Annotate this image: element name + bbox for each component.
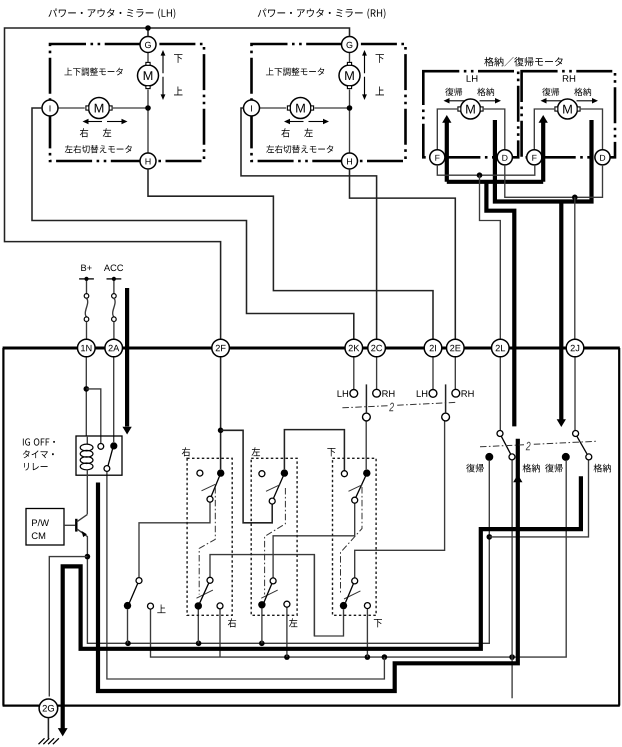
thick retract drive net — [98, 439, 522, 691]
wire 2J to retract switch common — [574, 357, 576, 430]
node L2 2L-retract — [509, 654, 515, 660]
thick return-feed arrow RH — [539, 115, 548, 182]
label LH selector b — [417, 390, 427, 396]
node 1N branch — [84, 386, 90, 392]
wire motor to F RH — [534, 109, 554, 150]
node L1 up-contact — [125, 641, 131, 647]
switch 左 top contacts — [259, 469, 288, 504]
up-down adjust motor M (LH) — [138, 62, 159, 88]
mirror LH enclosure box — [50, 44, 204, 161]
node 2F branch — [218, 428, 224, 434]
retract motor M LH — [458, 99, 483, 119]
label B+ — [81, 265, 91, 271]
label 右 top — [182, 447, 190, 456]
wire D net to 2J — [574, 197, 576, 339]
terminal G (LH) — [140, 37, 156, 53]
label 復帰 box LH — [445, 88, 462, 96]
left-right switch motor M (RH) — [287, 98, 313, 119]
wire F common net — [437, 165, 535, 175]
wire 2J retract contact link — [489, 460, 588, 537]
node L1 right-contact — [196, 641, 202, 647]
connector 2K — [345, 339, 363, 357]
label 左右切替えモータ (LH) — [65, 145, 132, 153]
label 右 (LH) — [80, 128, 88, 137]
label RH retract box — [563, 75, 575, 82]
connector 2G — [39, 699, 58, 718]
connector 2J — [566, 339, 584, 357]
label RH selector a — [382, 390, 394, 396]
retract arrow LH — [480, 98, 502, 104]
label 格納 box LH — [477, 88, 494, 96]
up-down arrow (LH) — [161, 50, 166, 100]
node L1 left-contact — [259, 641, 265, 647]
node D net junction — [572, 195, 578, 201]
thick loop ground arrow — [58, 728, 68, 736]
wire I LH to 2K — [32, 108, 354, 339]
retract motor box RH — [522, 71, 615, 157]
terminal I (RH) — [244, 100, 260, 116]
wire selector1 common to down-switch — [365, 421, 367, 469]
P/W CM box — [26, 509, 64, 546]
terminal G (RH) — [342, 37, 358, 53]
wire motor to H with tap (LH) — [147, 90, 149, 154]
label 左右切替えモータ (RH) — [266, 145, 333, 153]
feed bar ACC — [107, 277, 122, 281]
return arrow RH — [541, 98, 563, 104]
wire motor to D RH — [581, 109, 603, 150]
wire I to lr-motor (RH) — [260, 107, 287, 109]
up-down arrow (RH) — [362, 50, 367, 100]
switch 右 linkage — [197, 484, 216, 598]
wire 2I to selector LH contact — [432, 357, 434, 389]
wire I to lr-motor (LH) — [58, 107, 85, 109]
feed bar B+ — [79, 277, 94, 281]
label 上 (LH) — [174, 87, 183, 96]
wire left-switch closed drop — [261, 608, 263, 643]
switch 上 contacts — [124, 578, 154, 610]
label 復帰 2J — [545, 464, 562, 473]
retract motor M RH — [555, 99, 580, 119]
retract motor box LH — [423, 71, 518, 157]
selector switch a contacts — [350, 384, 381, 421]
wire right-switch closed drop — [197, 610, 199, 644]
wire H RH to 2E — [350, 169, 456, 339]
wire left-bottom common to down-arm — [273, 503, 355, 578]
transistor Q1 — [64, 514, 87, 556]
terminal F LH — [430, 150, 445, 165]
switch 右 top contacts — [197, 469, 225, 502]
up-down adjust motor M (RH) — [339, 62, 360, 88]
selector linkage — [342, 402, 457, 411]
connector 2C — [368, 339, 386, 357]
node emitter junction — [85, 554, 91, 560]
fuse B+ — [84, 281, 89, 339]
wire left-contact to down-contact link — [284, 430, 344, 471]
wire 1N branch to relay contact — [86, 389, 101, 444]
wire 2F to switch feed — [220, 357, 222, 469]
connector 2L — [492, 339, 510, 357]
wire ground net L2 — [151, 461, 567, 657]
label 下 (RH) — [376, 54, 384, 63]
wire motor to D LH — [484, 109, 505, 150]
connector 2I — [424, 339, 442, 357]
connector 1N — [78, 339, 96, 357]
switch 左 linkage — [261, 485, 285, 599]
wire 2E to selector RH contact — [454, 357, 456, 389]
control unit box — [3, 348, 620, 706]
label 上 (RH) — [375, 87, 384, 96]
thick retract bus D-side — [495, 120, 592, 202]
label 格納 2L — [523, 464, 540, 473]
power outer mirror (RH) title — [258, 8, 386, 18]
thick ACC feed arrow down — [122, 288, 131, 435]
label RH selector b — [462, 390, 474, 396]
terminal I (LH) — [42, 100, 58, 116]
left-right switch motor M (LH) — [86, 98, 112, 119]
left arrow 左 (LH) — [107, 119, 128, 125]
fuse ACC — [112, 281, 117, 339]
terminal D LH — [497, 150, 512, 165]
relay contact — [98, 442, 118, 471]
connector 2F — [212, 339, 230, 357]
label IG OFF timer relay — [23, 438, 55, 470]
wire down-bottom common to selector — [355, 421, 445, 578]
wire emitter to 2G — [49, 557, 87, 697]
wire 2C to selector RH contact — [376, 357, 378, 389]
wire G common rail to 2F — [5, 28, 350, 339]
switch 下 linkage — [341, 485, 363, 599]
connector 2E — [447, 339, 465, 357]
wire I RH to 2C — [241, 108, 377, 339]
wire 2L to retract switch common — [499, 357, 501, 430]
label LH retract box — [467, 75, 478, 82]
switch 下 bottom contacts — [340, 578, 371, 609]
wire motor to F LH — [437, 109, 457, 150]
terminal H (RH) — [342, 153, 358, 169]
label LH selector a — [338, 390, 348, 396]
retract switch 2L — [485, 431, 515, 461]
thick branch arrow to 2J switch — [557, 202, 566, 428]
label 上 — [157, 605, 165, 614]
retract linkage — [480, 441, 596, 450]
mirror RH enclosure box — [252, 44, 406, 161]
node motor junction (RH) — [347, 105, 353, 111]
switch 左 bottom contacts — [258, 578, 290, 609]
label 上下調整モータ (LH) — [64, 67, 122, 75]
label 左 (RH) — [304, 128, 312, 137]
label ACC — [104, 265, 123, 272]
node F net junction — [477, 172, 483, 178]
label 格納 2J — [594, 464, 611, 473]
label 下 top — [327, 448, 335, 456]
wire right-switch open drop — [219, 609, 221, 657]
wire lr-motor to node (RH) — [314, 107, 349, 109]
wire 1N to relay coil — [85, 357, 87, 437]
wire 2K to selector LH contact — [353, 357, 355, 389]
label 下 (LH) — [174, 54, 182, 63]
wire return net L1 — [87, 461, 489, 643]
wire G to motor (RH) — [349, 53, 351, 63]
label 右 (RH) — [281, 128, 289, 137]
label 上下調整モータ (RH) — [266, 67, 324, 75]
left arrow 左 (RH) — [309, 119, 330, 125]
wire lr-motor to node (LH) — [113, 107, 148, 109]
thick return-feed arrow LH — [442, 115, 451, 182]
relay coil — [80, 436, 93, 514]
terminal F RH — [527, 150, 542, 165]
wire G to motor (LH) — [147, 53, 149, 63]
switch box 右 — [187, 458, 232, 615]
wire D common net — [505, 165, 603, 197]
thick branch to retract switch — [486, 182, 514, 427]
relay IG OFF timer box — [76, 436, 122, 475]
switch 下 top contacts — [341, 469, 370, 503]
wire retract sw riser crossing — [313, 555, 315, 636]
retract switch 2J — [562, 431, 592, 461]
right arrow 右 (LH) — [83, 119, 103, 125]
return arrow LH — [444, 98, 466, 104]
switch box 下 — [333, 458, 377, 615]
terminal H (LH) — [140, 153, 156, 169]
wire right-bottom common to down-contact — [210, 555, 344, 636]
wire up-switch closed drop — [127, 609, 129, 643]
thick return loop — [63, 476, 581, 728]
node 2J-retract tie — [487, 534, 493, 540]
wire 2L retract contact drop — [511, 460, 513, 698]
label 左 top — [252, 447, 260, 456]
switch box 左 — [251, 458, 297, 615]
label 左 bottom — [289, 618, 297, 627]
retract arrow RH — [577, 98, 599, 104]
label 右 bottom — [228, 618, 236, 627]
ground — [39, 718, 59, 745]
node L2 relay riser — [382, 654, 388, 660]
label 格納 box RH — [574, 88, 591, 96]
node L2 left-open — [284, 654, 290, 660]
node G rail junction — [145, 25, 151, 31]
wire 2A to relay contact — [113, 357, 115, 442]
right arrow 右 (RH) — [284, 119, 304, 125]
selector switch b contacts — [429, 384, 460, 421]
wire left-switch open drop — [286, 607, 288, 657]
connector 2A — [105, 339, 123, 357]
wire F net to 2L — [480, 175, 501, 339]
wire down-switch open drop — [366, 609, 368, 658]
label 復帰 box RH — [542, 88, 559, 96]
wire 2F branch to left-switch arm — [221, 430, 273, 523]
node L2 down-open — [365, 654, 371, 660]
label 復帰 2L — [466, 464, 483, 473]
wire motor to H with tap (RH) — [349, 90, 351, 154]
thick U link — [62, 566, 64, 727]
label 左 (LH) — [103, 128, 111, 137]
label 下 bottom — [374, 619, 382, 627]
power outer mirror (LH) title — [48, 8, 175, 18]
node motor junction (LH) — [145, 105, 151, 111]
switch 右 bottom contacts — [195, 577, 223, 609]
terminal D RH — [595, 150, 610, 165]
wire relay contact net L3 — [107, 472, 385, 680]
retract/return motor title — [484, 57, 562, 67]
wire G LH to rail — [147, 28, 149, 36]
wire up-switch common to right-arm — [139, 502, 210, 577]
wire H LH to 2I — [148, 169, 433, 339]
thick return bus — [447, 180, 543, 184]
